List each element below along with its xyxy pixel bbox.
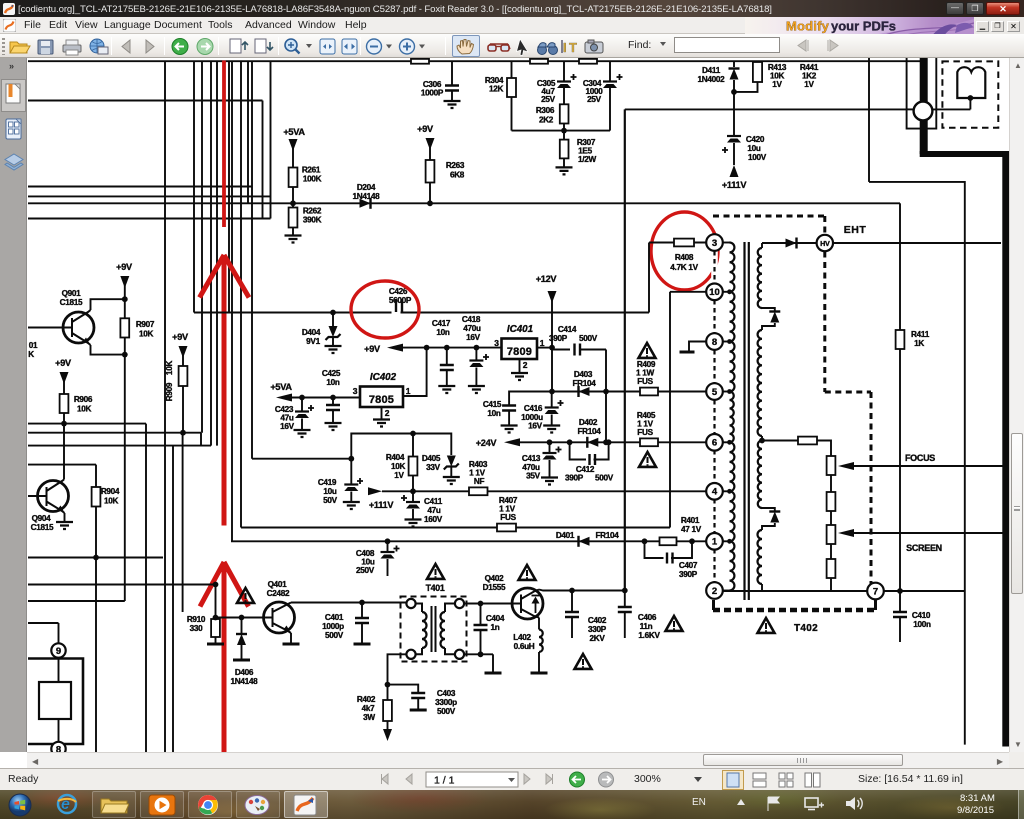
svg-text:10K: 10K <box>77 405 92 414</box>
zoom tool <box>285 39 297 51</box>
svg-text:IC401: IC401 <box>507 324 533 335</box>
thin box around degauss thick bar <box>907 57 937 129</box>
wire x64 Q904 collector feed <box>63 424 65 465</box>
wire main bus y203.3 <box>28 202 900 204</box>
wire Q402 collector <box>539 590 625 591</box>
resistor R307 1E5 1/2W <box>563 131 565 140</box>
wire +24V rail y442.3 <box>520 441 707 443</box>
svg-text:330: 330 <box>190 624 204 633</box>
svg-text:3: 3 <box>712 238 717 249</box>
wire vertical bus x232 <box>231 61 233 541</box>
svg-text:R263: R263 <box>446 161 465 170</box>
svg-text:FR104: FR104 <box>577 427 601 436</box>
resistor R263 6K8 <box>426 160 435 183</box>
ground at C401 <box>354 643 371 646</box>
node junction C408 <box>385 538 391 544</box>
svg-text:D405: D405 <box>422 454 441 463</box>
wire C414 right leg down <box>605 350 607 392</box>
svg-text:1000P: 1000P <box>421 89 444 98</box>
svg-text:FUS: FUS <box>637 377 653 386</box>
save <box>38 40 53 54</box>
warning triangle at T402 <box>758 618 775 633</box>
svg-text:EHT: EHT <box>844 224 867 236</box>
svg-text:+111V: +111V <box>369 500 394 510</box>
node junction IC402 riser <box>424 345 430 351</box>
svg-text:2: 2 <box>523 360 528 370</box>
red annotation arrowhead 1 <box>200 255 250 526</box>
svg-text:8: 8 <box>56 744 61 752</box>
node junction R263 to bus <box>427 200 433 206</box>
ground at C415 <box>501 426 518 433</box>
wire bus y557.5 <box>28 557 163 559</box>
svg-text:100K: 100K <box>303 175 322 184</box>
fit page / width <box>320 39 335 54</box>
svg-text:33V: 33V <box>426 463 441 472</box>
svg-text:FR104: FR104 <box>572 379 596 388</box>
svg-text:3: 3 <box>353 386 358 396</box>
svg-text:47u: 47u <box>427 506 441 515</box>
warning triangle above Q401 <box>237 588 254 603</box>
svg-text:R906: R906 <box>74 395 93 404</box>
svg-text:5: 5 <box>712 387 718 398</box>
svg-text:R904: R904 <box>101 487 120 496</box>
svg-text:C404: C404 <box>486 614 505 623</box>
svg-text:+9V: +9V <box>172 332 189 342</box>
wire x625 elbow from top right <box>625 108 907 110</box>
svg-text:10u: 10u <box>747 144 761 153</box>
node junction C404 bottom <box>478 651 484 657</box>
wire x252 down to +111V feed corner <box>251 187 253 459</box>
svg-text:160V: 160V <box>424 515 443 524</box>
capacitor C415 10n <box>509 392 552 406</box>
warning triangle below R405 <box>639 452 656 467</box>
resistor R306 2K2 <box>560 104 569 123</box>
red annotation circle around R408 <box>651 212 718 290</box>
svg-text:K: K <box>28 350 34 359</box>
svg-text:1N4148: 1N4148 <box>231 677 259 686</box>
node junction degauss coil <box>968 95 974 101</box>
svg-text:Q901: Q901 <box>62 289 82 298</box>
svg-text:C414: C414 <box>558 325 577 334</box>
svg-text:1V: 1V <box>772 80 782 89</box>
capacitor C305 4u7 25V <box>563 61 565 81</box>
svg-text:1n: 1n <box>491 623 500 632</box>
camera <box>585 42 603 53</box>
print <box>63 45 81 52</box>
svg-text:10K: 10K <box>391 462 406 471</box>
ground at C417 <box>438 386 455 393</box>
wire +5VA rail <box>292 397 360 399</box>
svg-text:C401: C401 <box>325 613 344 622</box>
svg-text:1V: 1V <box>394 471 404 480</box>
svg-text:12K: 12K <box>489 85 504 94</box>
node junction C425 <box>330 395 336 401</box>
ground IC402 pin2 <box>381 407 383 420</box>
wire R408 rail y242.5 <box>649 242 706 244</box>
wire x869 vertical <box>868 57 870 182</box>
node junction R261/R262 <box>290 200 296 206</box>
capacitor C416 1000u 16V <box>551 392 553 408</box>
node junction C402 <box>569 588 575 594</box>
focus divider resistor 4 <box>830 544 832 559</box>
ground at C418 <box>468 386 485 393</box>
svg-text:250V: 250V <box>356 566 375 575</box>
resistor R411 1K <box>899 203 901 330</box>
svg-text:7805: 7805 <box>369 394 394 406</box>
svg-text:25V: 25V <box>541 95 556 104</box>
capacitor C412 390P 500V loop <box>570 442 609 459</box>
svg-text:1K: 1K <box>914 339 924 348</box>
svg-text:T: T <box>569 40 577 55</box>
ground IC401 pin2 <box>519 359 521 373</box>
wire Q401 base rail <box>216 617 273 619</box>
node junction C417 <box>444 345 450 351</box>
minus circle <box>367 39 382 54</box>
svg-text:10K: 10K <box>165 361 174 376</box>
connector pin circled 9 <box>51 643 65 657</box>
svg-text:FOCUS: FOCUS <box>905 453 935 463</box>
connector box outline bottom-left <box>28 659 83 745</box>
wire vertical bus x262.5 <box>262 101 264 219</box>
node junction R906 bottom <box>61 421 67 427</box>
net +111V arrow down <box>730 165 739 177</box>
svg-text:16V: 16V <box>528 422 543 431</box>
svg-text:01: 01 <box>29 341 38 350</box>
svg-text:C418: C418 <box>462 315 481 324</box>
thick elbow to right border <box>920 151 1009 157</box>
svg-text:+5VA: +5VA <box>283 127 305 137</box>
node junction R401 left <box>642 538 648 544</box>
wire Q401 collector to C401/T401 <box>291 603 407 645</box>
node junction C406 / main vertical <box>622 588 628 594</box>
node junction R401 right <box>689 538 695 544</box>
node junction D403 left <box>549 389 555 395</box>
ground T401 bottom <box>485 672 502 675</box>
wire x173 down <box>172 446 174 752</box>
svg-text:6K8: 6K8 <box>450 171 465 180</box>
ground at C425 <box>325 423 342 430</box>
wire D401 rail y541.3 <box>231 540 707 542</box>
svg-text:10K: 10K <box>139 330 154 339</box>
ground Q401 emitter <box>283 643 300 646</box>
wire bus y584.5 <box>28 584 216 586</box>
resistor bump on top rail (right) <box>579 59 597 64</box>
ground at T402 pin 8 <box>689 342 706 352</box>
svg-text:C417: C417 <box>432 319 451 328</box>
secondary rectifier diode (lower) <box>762 508 775 511</box>
svg-text:10: 10 <box>709 287 720 298</box>
svg-text:500V: 500V <box>595 474 614 483</box>
svg-text:100n: 100n <box>913 620 931 629</box>
svg-text:R411: R411 <box>911 330 930 339</box>
node junction x606 between rails <box>605 392 607 443</box>
glasses <box>488 44 510 49</box>
warning triangle right of C406 <box>666 616 683 631</box>
wire segment left of connector circle <box>907 108 914 110</box>
wire Q904 collector to bus <box>63 465 66 522</box>
ground at D405 <box>443 477 460 484</box>
svg-text:C420: C420 <box>746 135 765 144</box>
svg-text:0.6uH: 0.6uH <box>514 642 535 651</box>
node junction R411 at bottom rail <box>897 588 903 594</box>
wire pin10 to x670 <box>670 291 706 293</box>
svg-text:R262: R262 <box>303 207 322 216</box>
wire EHT rail y243 <box>762 242 1001 244</box>
wire bus y464.6 <box>28 464 96 466</box>
ground at C413 <box>541 478 558 485</box>
svg-text:+5VA: +5VA <box>270 382 292 392</box>
ground at C423 <box>294 430 311 437</box>
node junction R904 bottom <box>93 555 99 561</box>
svg-text:500V: 500V <box>325 631 344 640</box>
svg-text:D204: D204 <box>357 183 376 192</box>
thick vertical bar top right <box>920 57 928 154</box>
menu bar <box>0 17 1024 34</box>
svg-text:35V: 35V <box>526 472 541 481</box>
node junction D406 <box>239 615 245 621</box>
svg-text:7: 7 <box>873 586 878 597</box>
focus divider resistor 2 <box>830 475 832 492</box>
net SCREEN arrow <box>838 529 854 537</box>
node junction C418 <box>474 345 480 351</box>
svg-text:1N4148: 1N4148 <box>353 192 381 201</box>
wire R407 rail y527.5 <box>241 527 670 529</box>
taskbar <box>0 790 1024 819</box>
node junction C411 <box>410 488 416 494</box>
wire IC401 pin1 to +12V node <box>537 347 552 349</box>
svg-text:R261: R261 <box>302 166 321 175</box>
wire bus y601 left <box>28 600 125 602</box>
wire pin10 tail x670 <box>669 292 671 528</box>
svg-text:C416: C416 <box>524 404 543 413</box>
svg-text:SCREEN: SCREEN <box>906 543 942 553</box>
svg-text:C425: C425 <box>322 369 341 378</box>
svg-text:C415: C415 <box>483 400 502 409</box>
wire R907 column down <box>124 355 126 601</box>
ground at C306 <box>444 101 461 108</box>
wire vertical bus x165 <box>164 61 166 752</box>
transformer T402 secondary winding section B <box>758 330 762 436</box>
focus divider resistor 3 <box>830 511 832 525</box>
wire x146 down <box>145 424 147 752</box>
svg-text:Q401: Q401 <box>268 580 288 589</box>
wire R304/C305/C304 bottom <box>512 130 611 132</box>
hand tool selected <box>452 35 480 57</box>
svg-text:2K2: 2K2 <box>539 116 554 125</box>
svg-text:25V: 25V <box>587 95 602 104</box>
wire T402 bottom rail y591 <box>723 590 965 592</box>
transformer T402 secondary winding section C <box>758 441 762 509</box>
wire long vertical x624.8 <box>624 109 626 590</box>
wire Q901 collector <box>91 299 125 354</box>
transformer T402 secondary winding section D <box>758 530 763 584</box>
wire vertical bus x211 <box>210 61 212 445</box>
wire R904 column to bottom <box>95 558 97 753</box>
svg-text:10n: 10n <box>436 328 450 337</box>
svg-text:R907: R907 <box>136 320 155 329</box>
svg-text:1: 1 <box>406 386 411 396</box>
svg-text:C419: C419 <box>318 478 337 487</box>
transformer T402 pin column dashed <box>713 250 715 584</box>
wire vertical bus x270.5 <box>270 61 272 218</box>
wire horizontal bus y100.5 <box>28 100 263 102</box>
node junction C413 <box>547 439 553 445</box>
wire +12V column down <box>551 348 553 392</box>
capacitor C304 1000 25V <box>609 61 611 81</box>
svg-text:D402: D402 <box>579 418 598 427</box>
svg-text:D404: D404 <box>302 328 321 337</box>
window title bar <box>0 0 1024 17</box>
green circles <box>172 38 188 54</box>
svg-text:3300p: 3300p <box>435 698 457 707</box>
node junction R306/R307 <box>561 128 567 134</box>
transformer T401 core <box>431 606 433 652</box>
HV terminal circle <box>817 235 833 251</box>
svg-text:4k7: 4k7 <box>362 704 376 713</box>
svg-text:16V: 16V <box>466 333 481 342</box>
svg-text:L402: L402 <box>513 633 531 642</box>
child window buttons <box>974 17 1024 34</box>
svg-text:D411: D411 <box>702 66 721 75</box>
svg-text:+12V: +12V <box>536 274 558 284</box>
wire T401 bottom left to R402 <box>388 654 407 684</box>
page up/down <box>230 39 241 53</box>
open <box>10 42 27 53</box>
svg-text:10K: 10K <box>104 497 119 506</box>
svg-text:C403: C403 <box>437 689 456 698</box>
svg-text:500V: 500V <box>579 334 598 343</box>
svg-text:1000p: 1000p <box>322 622 344 631</box>
svg-text:C411: C411 <box>424 497 443 506</box>
svg-text:9: 9 <box>56 646 61 657</box>
transformer T402 pin 6 <box>706 434 723 451</box>
vertical scrollbar <box>1009 58 1024 752</box>
focus divider feed resistor <box>762 440 798 442</box>
svg-text:1V: 1V <box>804 80 814 89</box>
node junction +12V <box>549 345 555 351</box>
svg-text:3W: 3W <box>363 713 375 722</box>
svg-text:R909: R909 <box>165 382 174 401</box>
svg-text:R910: R910 <box>187 615 206 624</box>
wire rectifier rail y391.5 <box>552 391 707 393</box>
wire to C403 <box>388 685 419 693</box>
svg-text:+24V: +24V <box>476 438 498 448</box>
warning triangle above Q402 <box>519 565 536 580</box>
wire vertical bus x217 <box>216 61 218 445</box>
node junction R910/base <box>213 615 219 621</box>
resistor R906 10K <box>60 394 69 413</box>
warning triangle above T401 <box>427 564 444 579</box>
transformer T402 pin 2 <box>706 582 723 599</box>
svg-text:390P: 390P <box>549 334 568 343</box>
svg-text:2KV: 2KV <box>589 634 605 643</box>
wire top rail <box>28 60 920 62</box>
transformer T402 core <box>743 242 745 600</box>
svg-text:6: 6 <box>712 438 717 449</box>
svg-text:IC402: IC402 <box>370 372 397 383</box>
svg-text:47 1V: 47 1V <box>681 525 702 534</box>
wire vertical bus x202 <box>201 61 203 433</box>
resistor bump on top rail (left) <box>411 59 429 64</box>
node junction R404 top <box>410 431 416 437</box>
svg-text:2: 2 <box>712 586 717 597</box>
connector circle on degauss line <box>914 102 933 121</box>
svg-text:500V: 500V <box>437 707 456 716</box>
ground at L402 <box>531 672 548 675</box>
transformer T402 pin 8 <box>706 333 723 350</box>
node junction Q901 collector / R907 <box>122 296 128 302</box>
ground at D404 <box>325 346 342 353</box>
svg-text:C1815: C1815 <box>60 298 83 307</box>
wire secondary bottom to rail <box>761 584 763 591</box>
ground at C411 <box>405 520 422 527</box>
transistor Q402 internal damper diode <box>535 600 537 613</box>
wire horizontal bus y186.5 <box>28 186 252 188</box>
svg-text:+111V: +111V <box>722 180 747 190</box>
degauss coil winding <box>957 67 985 98</box>
svg-text:D403: D403 <box>574 370 593 379</box>
horizontal scrollbar <box>27 752 1009 768</box>
svg-text:I: I <box>563 40 567 55</box>
connector pin circled 8 <box>58 719 60 742</box>
net +111V arrow right <box>368 487 382 495</box>
svg-text:your PDFs: your PDFs <box>831 19 896 34</box>
resistor R413 10K <box>757 61 759 63</box>
dashed shield line top <box>713 215 825 218</box>
node junction base feed Q401 <box>213 582 219 588</box>
svg-text:1: 1 <box>540 338 545 348</box>
node junction R909 bottom <box>180 430 186 436</box>
svg-text:390P: 390P <box>565 474 584 483</box>
secondary tap to focus divider <box>761 436 763 441</box>
node junction C423 <box>299 395 305 401</box>
svg-text:R401: R401 <box>681 516 700 525</box>
wire vertical bus x229 <box>228 61 230 312</box>
node junction D403 right <box>603 389 609 395</box>
svg-text:+9V: +9V <box>417 124 434 134</box>
node junction C419 <box>348 456 354 462</box>
resistor R907 10K <box>120 318 129 337</box>
wire x182 stub <box>182 433 184 612</box>
diode to HV <box>786 239 797 248</box>
thick dashed bottom shield of T402 <box>713 608 876 613</box>
svg-text:FUS: FUS <box>500 513 516 522</box>
svg-text:C2482: C2482 <box>267 589 290 598</box>
svg-text:T402: T402 <box>794 623 818 634</box>
wire bus y423.6 <box>28 423 146 425</box>
node junction D411/R413 <box>731 89 737 95</box>
node junction C412 right / D402 out <box>606 439 612 445</box>
focus divider resistor 1 <box>827 456 836 475</box>
svg-text:D401: D401 <box>556 531 575 540</box>
capacitor C420 10u 100V <box>733 92 735 136</box>
wire vertical bus x248 <box>247 61 249 203</box>
transformer T402 pin 1 <box>706 533 723 550</box>
ground Q904 emitter <box>56 522 73 529</box>
node junction C412 left <box>567 439 573 445</box>
svg-text:9V1: 9V1 <box>306 337 320 346</box>
svg-text:C1815: C1815 <box>31 523 54 532</box>
wire y623 to connector <box>28 622 59 624</box>
wire T401 secondary top to Q402 base <box>464 603 521 605</box>
svg-text:11n: 11n <box>640 622 653 631</box>
node junction Q901 emitter / R907 bottom <box>122 352 128 358</box>
svg-text:+9V: +9V <box>364 344 381 354</box>
ad banner "Modify your PDFs" <box>745 17 974 38</box>
ground at D406 <box>233 659 250 662</box>
transformer T402 pin 10 <box>706 284 723 301</box>
resistor R304 12K <box>511 61 513 78</box>
